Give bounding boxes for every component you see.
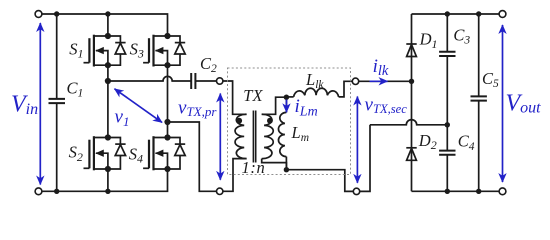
wire primary winding bottom to bottom port bbox=[223, 159, 247, 192]
wire secondary top port to rectifier junction bbox=[359, 80, 412, 82]
arrow vTX,sec bbox=[356, 97, 358, 183]
svg-text:C1: C1 bbox=[67, 79, 84, 100]
transistor S2 bbox=[84, 136, 126, 170]
wire C4 branch bbox=[446, 125, 448, 192]
wire C2 to primary port bbox=[195, 80, 216, 82]
wire secondary bottom out bbox=[286, 170, 353, 192]
wire node B tap to primary bottom port bbox=[168, 122, 217, 191]
svg-text:S1: S1 bbox=[69, 39, 83, 60]
port secondary bottom bbox=[353, 188, 359, 194]
arrow iLm bbox=[286, 100, 288, 113]
transformer TX primary winding bbox=[235, 114, 247, 158]
svg-text:TX: TX bbox=[243, 86, 263, 105]
diode D2 bbox=[406, 148, 416, 161]
node: C5 top rail junction bbox=[476, 11, 481, 16]
node: C5 bottom rail junction bbox=[476, 189, 481, 194]
node: Lm top junction bbox=[284, 95, 289, 100]
capacitor C3 bbox=[439, 52, 455, 56]
node: C4 bottom rail junction bbox=[445, 189, 450, 194]
wire secondary winding bottom lead bbox=[262, 159, 287, 170]
capacitor C2 bbox=[191, 73, 195, 89]
wire C1 branch bottom bbox=[56, 103, 58, 191]
diode D1 bbox=[406, 44, 416, 57]
wire L_m junction to L_lk bbox=[286, 96, 293, 98]
node: S2 drain bbox=[105, 134, 111, 140]
capacitor C5 bbox=[471, 96, 487, 100]
wire bottom rail right bbox=[412, 190, 500, 192]
inductor Llk bbox=[294, 88, 339, 97]
wire midpoint with hop over diode branch bbox=[370, 120, 447, 125]
svg-text:1:n: 1:n bbox=[242, 158, 266, 177]
node: S2 source rail junction bbox=[105, 189, 110, 194]
svg-text:D1: D1 bbox=[419, 30, 438, 51]
svg-text:Vout: Vout bbox=[506, 90, 542, 116]
svg-text:vTX,sec: vTX,sec bbox=[365, 95, 408, 117]
node A tap bbox=[105, 78, 111, 84]
node: C3 top rail junction bbox=[445, 11, 450, 16]
wire bottom rail left bbox=[42, 169, 168, 191]
arrow Vout bbox=[502, 25, 504, 182]
terminal Vin - bbox=[35, 188, 42, 195]
arrow ilk bbox=[370, 80, 388, 82]
transistor S3 bbox=[143, 35, 185, 67]
transistor S1 bbox=[84, 35, 126, 67]
node: C1 top junction bbox=[54, 11, 59, 16]
terminal Vout + bbox=[499, 11, 506, 18]
svg-text:S2: S2 bbox=[69, 143, 83, 164]
terminals and ports bbox=[35, 11, 506, 195]
wire C1 branch top bbox=[56, 14, 58, 99]
port primary bottom bbox=[217, 188, 223, 194]
transformer TX secondary winding bbox=[262, 114, 274, 158]
node: Lm bottom junction bbox=[284, 167, 289, 172]
node: S3 source bbox=[164, 62, 170, 68]
dashed transformer model box bbox=[228, 68, 351, 175]
capacitor C4 bbox=[439, 151, 455, 155]
node: S2 source bbox=[105, 166, 111, 172]
svg-text:C4: C4 bbox=[458, 132, 475, 153]
svg-text:C5: C5 bbox=[482, 69, 499, 90]
node: S1 drain bbox=[105, 33, 111, 39]
arrow vTX,pr bbox=[219, 94, 221, 180]
wire S1 drain stub bbox=[107, 14, 109, 36]
wire node A to C2 with hop over S3/S4 column bbox=[108, 76, 191, 81]
svg-text:vTX,pr: vTX,pr bbox=[178, 98, 217, 120]
port secondary top bbox=[352, 78, 358, 84]
node: C3 C4 midpoint bbox=[445, 122, 450, 127]
svg-text:S4: S4 bbox=[129, 145, 143, 166]
arrow Vin bbox=[39, 23, 41, 185]
svg-text:C3: C3 bbox=[453, 25, 470, 46]
node: S4 source bbox=[164, 166, 170, 172]
svg-text:Vin: Vin bbox=[11, 92, 38, 119]
wire secondary winding top lead bbox=[262, 97, 287, 114]
wire L_m top lead bbox=[285, 97, 287, 112]
svg-text:D2: D2 bbox=[418, 131, 437, 152]
node: ilk rectifier junction bbox=[409, 79, 414, 84]
wire top rail left bbox=[42, 14, 168, 36]
svg-text:Lm: Lm bbox=[291, 123, 310, 144]
wire primary port to winding top bbox=[223, 81, 247, 114]
blue measurement annotations bbox=[40, 23, 502, 185]
capacitor C1 bbox=[49, 99, 66, 103]
svg-text:Llk: Llk bbox=[305, 70, 324, 91]
arrow v1 bbox=[115, 89, 163, 123]
wire secondary bottom port to riser bbox=[360, 125, 370, 192]
terminal Vout - bbox=[499, 188, 506, 195]
terminal Vin + bbox=[35, 11, 42, 18]
wire L_lk to secondary top port bbox=[339, 81, 353, 97]
inductor Lm bbox=[278, 112, 286, 156]
node: TX secondary polarity dot bbox=[267, 118, 273, 124]
svg-text:C2: C2 bbox=[200, 54, 217, 75]
node: TX primary polarity dot bbox=[236, 118, 242, 124]
node: S3 drain bbox=[164, 33, 170, 39]
transformer TX core bbox=[253, 111, 255, 163]
svg-text:ilk: ilk bbox=[373, 56, 389, 79]
node: S4 drain bbox=[164, 134, 170, 140]
wire node B column bbox=[167, 65, 169, 137]
transistor S4 bbox=[143, 136, 185, 170]
node: S1 drain rail junction bbox=[105, 11, 110, 16]
wire C5 branch bbox=[478, 14, 480, 191]
svg-text:iLm: iLm bbox=[295, 96, 318, 119]
node: C1 bottom junction bbox=[54, 189, 59, 194]
wire rectifier diode branch bbox=[411, 14, 413, 191]
wire S2 source stub bbox=[107, 169, 109, 191]
wire top rail right bbox=[412, 13, 500, 15]
node B tap bbox=[164, 119, 170, 125]
svg-text:S3: S3 bbox=[130, 39, 144, 60]
node: S1 source bbox=[105, 62, 111, 68]
wire L_m bottom lead bbox=[285, 157, 287, 170]
wire node A column bbox=[107, 65, 109, 137]
svg-text:v1: v1 bbox=[115, 106, 130, 129]
wire C3 branch bbox=[446, 14, 448, 125]
port primary top bbox=[217, 78, 223, 84]
